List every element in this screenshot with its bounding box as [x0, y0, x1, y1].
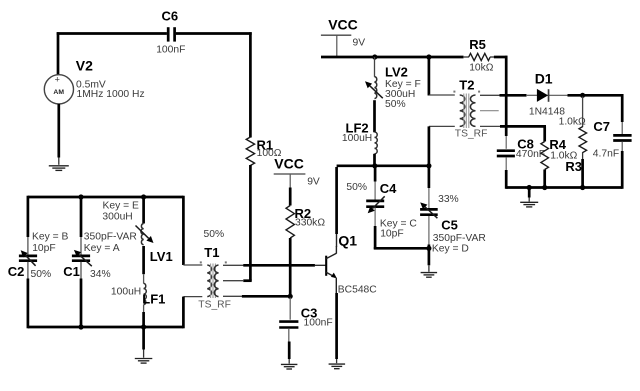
svg-text:T2: T2	[459, 77, 474, 92]
inductor LF1 coil	[144, 283, 147, 304]
svg-text:100uH: 100uH	[342, 133, 372, 144]
transformer T2 primary winding	[460, 95, 465, 126]
node junction C5 top / T2 bottom	[426, 163, 431, 168]
wire tank ground stub	[142, 327, 145, 358]
label C1 percent 34%	[90, 269, 111, 280]
svg-text:1.0kΩ: 1.0kΩ	[559, 117, 586, 128]
label C3	[301, 306, 318, 321]
svg-text:50%: 50%	[31, 269, 52, 280]
ground under Q1 emitter	[329, 364, 346, 369]
node junction D1 output / R3	[580, 93, 585, 98]
inductor LV2 arrow	[365, 81, 383, 98]
wire LV2 to LF2	[373, 100, 376, 132]
svg-text:LV1: LV1	[150, 249, 173, 264]
svg-text:C2: C2	[8, 264, 25, 279]
wire T1 primary bottom tap	[183, 296, 202, 298]
label C4 value 10pF	[380, 228, 403, 239]
label R1	[257, 138, 274, 153]
svg-text:100nF: 100nF	[156, 45, 185, 56]
resistor R4	[541, 142, 549, 170]
label T1 type TS_RF	[198, 299, 231, 310]
wire VCC rail to R5	[321, 56, 464, 59]
label C1	[63, 264, 80, 279]
transformer T2 polarity dots	[453, 91, 480, 93]
capacitor C6 plates	[168, 27, 174, 41]
wire R5 to corner	[494, 56, 508, 59]
label C5 key Key = D	[432, 243, 469, 254]
wire T1 secondary bottom tap	[223, 295, 242, 297]
wire V2 bottom lead	[57, 104, 60, 165]
svg-text:Key = A: Key = A	[84, 243, 120, 254]
transistor Q1 emitter lead	[326, 272, 337, 293]
wire T1 secondary center tap	[223, 280, 244, 282]
resistor R1	[246, 137, 254, 166]
label C2 value 10pF	[32, 243, 55, 254]
svg-text:350pF-VAR: 350pF-VAR	[84, 232, 137, 243]
wire C2 bottom lead	[27, 262, 29, 329]
node junction ground stub	[527, 185, 532, 190]
wire T1 primary top tap	[183, 264, 202, 266]
node junction T2 primary top	[426, 54, 431, 59]
wire R3 top lead	[582, 97, 584, 128]
label R5	[469, 37, 486, 52]
wire R4 top lead	[543, 126, 546, 141]
svg-text:10kΩ: 10kΩ	[469, 62, 494, 73]
wire detector bottom rail	[506, 186, 622, 189]
capacitor C2 plates	[19, 256, 37, 261]
transformer T1 polarity dots	[200, 261, 227, 263]
resistor R3	[579, 127, 587, 153]
label R3	[565, 159, 582, 174]
node junction R2 / T1 bottom tap / C3	[288, 294, 293, 299]
label C2	[8, 264, 25, 279]
wire T1 bottom tap thick	[242, 295, 290, 298]
node junction LF1 bottom	[141, 324, 146, 329]
wire tank right vertical upper	[182, 196, 185, 265]
label V2	[76, 58, 93, 74]
inductor LF2 coil	[375, 132, 378, 154]
capacitor C4 plates	[366, 201, 384, 207]
label LF2 value 100uH	[342, 133, 372, 144]
label LF1	[142, 291, 165, 306]
svg-text:C4: C4	[380, 181, 397, 196]
wire tank top rail	[28, 196, 184, 199]
svg-text:33%: 33%	[438, 194, 459, 205]
ground under C3	[281, 364, 298, 369]
svg-text:C7: C7	[593, 119, 610, 134]
wire T2 secondary top tap	[480, 94, 500, 96]
label C5 percent 33%	[438, 194, 459, 205]
power VCC node 1	[274, 174, 306, 188]
wire base lead	[315, 264, 327, 266]
wire C5 top lead	[428, 166, 431, 209]
wire top from V2 to C6 and R1	[57, 32, 252, 35]
wire LF2 bottom lead	[373, 154, 376, 167]
node junction C1 top	[78, 194, 83, 199]
label C2 percent 50%	[31, 269, 52, 280]
ground under C5	[421, 273, 438, 278]
capacitor C1 plates	[72, 256, 90, 261]
svg-text:Key = B: Key = B	[32, 232, 68, 243]
node junction C4 top	[372, 163, 377, 168]
label C4 percent 50%	[346, 182, 367, 193]
label C5	[441, 217, 458, 232]
node junction LV1 top	[141, 194, 146, 199]
node junction LV2 top	[372, 54, 377, 59]
svg-text:R3: R3	[565, 159, 582, 174]
label LV2 percent 50%	[385, 99, 406, 110]
label R4	[549, 137, 566, 152]
wire tank right vertical lower	[182, 297, 185, 329]
label C8 value 470nF	[516, 149, 545, 160]
label R5 value 10kΩ	[469, 62, 494, 73]
capacitor C2 arrow	[21, 250, 36, 265]
svg-text:C6: C6	[162, 9, 179, 24]
svg-text:1MHz 1000 Hz: 1MHz 1000 Hz	[77, 89, 145, 100]
wire base net	[243, 264, 315, 267]
wire D1 cathode to output node	[568, 94, 623, 97]
svg-text:10pF: 10pF	[380, 228, 403, 239]
label LV1 key Key = E	[103, 201, 139, 212]
capacitor C1 arrow	[74, 250, 92, 266]
node junction R3 bottom	[580, 185, 585, 190]
label C4 key Key = C	[380, 218, 417, 229]
svg-text:VCC: VCC	[274, 156, 304, 172]
svg-text:330kΩ: 330kΩ	[295, 217, 325, 228]
label C2 key Key = B	[32, 232, 68, 243]
capacitor C8 plates	[497, 151, 515, 156]
capacitor C3 plates	[279, 322, 298, 328]
wire emitter to ground	[335, 293, 338, 363]
svg-text:V2: V2	[76, 58, 93, 74]
transistor Q1 base bar	[325, 256, 327, 276]
label T2	[459, 77, 474, 92]
transformer T1 primary winding	[207, 265, 211, 297]
capacitor C5 plates	[420, 209, 438, 214]
svg-text:D1: D1	[535, 71, 553, 87]
transformer T1 core	[211, 264, 216, 299]
label C1 key Key = A	[84, 243, 120, 254]
wire junction to C3	[289, 298, 291, 320]
label D1	[535, 71, 553, 87]
label D1 type 1N4148	[529, 106, 565, 117]
wire T2 secondary top to D1	[500, 94, 538, 97]
label C6	[162, 9, 179, 24]
wire C7 bottom lead	[621, 142, 623, 189]
label C6 value 100nF	[156, 45, 185, 56]
label C3 value 100nF	[304, 318, 333, 329]
svg-text:Key = E: Key = E	[103, 201, 139, 212]
svg-text:100nF: 100nF	[304, 318, 333, 329]
wire C1 bottom lead	[80, 262, 82, 329]
transistor Q1 collector lead	[326, 246, 336, 259]
svg-text:Q1: Q1	[338, 233, 357, 249]
label C7 value 4.7nF	[593, 149, 619, 160]
wire collector vertical	[335, 167, 338, 247]
resistor R5	[463, 53, 495, 60]
svg-text:R5: R5	[469, 37, 486, 52]
svg-text:50%: 50%	[385, 99, 406, 110]
svg-text:LV2: LV2	[385, 65, 408, 80]
label C4	[380, 181, 397, 196]
svg-text:VCC: VCC	[328, 17, 358, 33]
capacitor C7 plates	[613, 135, 631, 140]
label V2 value 0.5mV	[76, 79, 106, 90]
transformer T1 secondary winding	[214, 265, 218, 297]
wire C4 to C5 bottom	[374, 247, 429, 250]
wire R2 down across base to tap junction	[289, 238, 292, 298]
svg-text:+: +	[55, 75, 60, 85]
svg-text:BC548C: BC548C	[338, 285, 377, 296]
label LV1 value 300uH	[102, 211, 132, 222]
svg-text:50%: 50%	[346, 182, 367, 193]
wire T2 primary bottom tap	[429, 125, 455, 127]
ground under tank	[135, 359, 153, 364]
svg-text:34%: 34%	[90, 269, 111, 280]
wire LV1 top lead	[142, 197, 145, 224]
svg-text:TS_RF: TS_RF	[455, 128, 488, 139]
label C7	[593, 119, 610, 134]
diode D1	[537, 89, 568, 102]
wire detector ground stub	[528, 188, 531, 202]
label C1 value 350pF-VAR	[84, 232, 137, 243]
wire tank left vertical	[27, 196, 30, 255]
svg-text:C1: C1	[63, 264, 80, 279]
wire C1 top lead	[80, 197, 83, 255]
label VCC 1	[274, 156, 304, 172]
wire C3 to ground	[288, 329, 290, 364]
label LF1 value 100uH	[111, 286, 141, 297]
label LV1	[150, 249, 173, 264]
label C5 value 350pF-VAR	[433, 233, 486, 244]
wire C4 top lead	[374, 166, 377, 200]
wire T2 primary top tap	[429, 94, 455, 96]
power VCC node 2	[321, 35, 351, 56]
node junction C5 bottom	[426, 246, 431, 251]
label LV2 key Key = F	[385, 79, 421, 90]
wire T2 secondary bottom tap	[480, 125, 501, 127]
wire T2 secondary center tap stub	[480, 110, 499, 112]
inductor LV1 arrow	[136, 226, 154, 244]
label R4 value 1.0kΩ	[550, 150, 577, 161]
wire C5 bottom lead	[428, 216, 430, 272]
wire C6 to R1 corner	[249, 32, 252, 137]
svg-text:Key = D: Key = D	[432, 243, 469, 254]
label LV2 value 300uH	[385, 89, 415, 100]
svg-text:TS_RF: TS_RF	[198, 299, 231, 310]
capacitor C5 arrow	[420, 202, 437, 218]
svg-text:C5: C5	[441, 217, 458, 232]
ground under V2	[49, 166, 69, 171]
label VCC 1 value 9V	[307, 176, 320, 187]
wire LV1 to LF1	[142, 246, 145, 284]
wire tank bottom rail	[28, 326, 184, 329]
label R2	[295, 206, 312, 221]
label VCC 2	[328, 17, 358, 33]
label R2 value 330kΩ	[295, 217, 325, 228]
wire LV2 top lead	[374, 57, 376, 77]
wire T2 bottom tap to R4 corner	[500, 125, 546, 128]
wire R1 to T1 center tap	[243, 165, 251, 281]
wire C8 bottom lead	[505, 157, 507, 188]
svg-text:100uH: 100uH	[111, 286, 141, 297]
svg-text:300uH: 300uH	[102, 211, 132, 222]
svg-text:9V: 9V	[307, 176, 320, 187]
wire R5 corner down to C8	[505, 56, 508, 149]
wire V2 top lead	[57, 32, 60, 75]
inductor LV1 coil	[141, 224, 144, 245]
node junction R4 bottom	[542, 185, 547, 190]
transformer T2 secondary winding	[470, 95, 475, 126]
label T1 percent 50%	[204, 229, 225, 240]
source V2 circle	[44, 75, 73, 104]
svg-text:50%: 50%	[204, 229, 225, 240]
svg-text:LF1: LF1	[142, 291, 165, 306]
svg-text:9V: 9V	[353, 37, 366, 48]
svg-text:470nF: 470nF	[516, 149, 545, 160]
wire collector net horizontal	[337, 164, 429, 167]
resistor R2	[286, 206, 294, 239]
label V2 value 1MHz 1000 Hz	[77, 89, 145, 100]
node junction C1 bottom	[78, 324, 83, 329]
wire C4 bottom lead	[374, 208, 376, 250]
svg-text:4.7nF: 4.7nF	[593, 149, 619, 160]
wire T1 secondary top tap to base	[223, 264, 244, 266]
wire R4 bottom lead	[543, 170, 546, 189]
label C8	[517, 136, 534, 151]
label R3 value 1.0kΩ	[559, 117, 586, 128]
label R1 value 100Ω	[257, 148, 282, 159]
capacitor C4 arrow	[368, 196, 385, 213]
wire VCC to R2	[289, 188, 292, 206]
svg-text:10pF: 10pF	[32, 243, 55, 254]
wire T2 primary left vertical upper	[428, 57, 431, 96]
label T2 type TS_RF	[455, 128, 488, 139]
wire LF1 bottom lead	[143, 305, 145, 329]
label T1	[204, 245, 219, 260]
inductor LV2 coil	[375, 77, 377, 99]
label LF2	[346, 121, 369, 136]
wire T2 primary left vertical lower	[428, 126, 431, 167]
ground under detector rail	[520, 202, 538, 207]
wire R3 bottom lead	[582, 152, 584, 189]
label LV2	[385, 65, 408, 80]
label VCC 2 value 9V	[353, 37, 366, 48]
label Q1 type BC548C	[338, 285, 377, 296]
svg-text:T1: T1	[204, 245, 219, 260]
wire output corner down to C7	[621, 94, 624, 135]
transformer T2 core	[464, 94, 469, 129]
svg-text:AM: AM	[53, 89, 64, 96]
label Q1	[338, 233, 357, 249]
